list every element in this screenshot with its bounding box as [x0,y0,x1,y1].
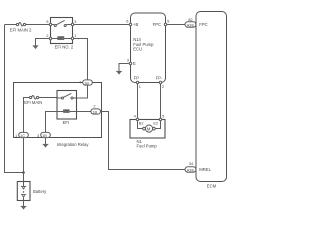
svg-text:1B: 1B [42,133,47,138]
battery [17,182,47,201]
wire connector 1B pin4 to relay EFI switch [73,85,87,98]
fuel pump ECU N14 [126,13,170,89]
integration relay box [14,83,102,147]
ground at ECU pin E [116,71,122,73]
connector 1B pin 2 [91,104,101,115]
wire connector 1B pin 3 to ground [45,138,47,145]
wire ECU FP to fuel pump pin 4 [137,84,139,119]
connector A38 pin 34 (MREL) [185,161,196,172]
svg-text:+B: +B [133,22,138,27]
svg-text:Fuel Pump: Fuel Pump [137,143,158,148]
wire connector 1C up to fuse EFI MAIN [24,98,30,133]
wire top rail to fuse [5,24,17,26]
svg-text:M: M [147,126,151,131]
svg-text:ECM: ECM [207,183,217,188]
wire relay pin 2 to ground [36,39,50,46]
svg-text:Battery: Battery [33,189,47,194]
svg-text:1C: 1C [20,133,25,138]
svg-text:EFI: EFI [63,120,70,125]
svg-text:EFI MAIN 2: EFI MAIN 2 [10,27,32,32]
svg-text:MREL: MREL [199,167,211,172]
wire ECU pin E to ground [119,64,129,72]
connector A38 pin 82 (FPC) [185,17,196,28]
wire fuse EFI MAIN to relay EFI [39,97,57,99]
svg-text:EFI MAIN: EFI MAIN [24,100,42,105]
svg-text:ECU: ECU [133,47,142,52]
wire relay EFI coil to connector 1B pin 2 [70,111,91,113]
ECM box [196,12,227,189]
wire relay pin 3 to ECU +B [74,24,130,26]
wire battery to ground [23,201,25,207]
svg-text:FP-: FP- [156,76,163,81]
ground at relay EFI NO.2 pin 2 [33,46,39,48]
wire ECU FP- to fuel pump pin 5 [160,84,162,119]
fuel pump N1 [130,114,165,149]
connector 1C pin 1 [15,132,28,138]
svg-text:FPC: FPC [153,22,161,27]
svg-text:FPC: FPC [199,22,207,27]
wire pump pin 5 to motor [155,121,160,129]
svg-text:A38: A38 [187,22,194,27]
wire battery positive rail (left) [5,25,24,173]
svg-text:B2: B2 [139,120,144,125]
wire relay pin 1 to connector 1B pin 4 [74,39,88,80]
relay EFI [57,91,77,126]
wire fuse to relay pin 5 [26,24,50,26]
svg-text:Integration Relay: Integration Relay [57,142,90,147]
svg-text:A38: A38 [187,167,194,172]
svg-text:1B: 1B [92,109,97,114]
ground at integration relay pin 3 [43,144,49,146]
svg-text:E: E [133,61,136,66]
fuse EFI MAIN [24,96,42,105]
ground at battery [21,206,27,208]
node battery junction [22,171,25,174]
svg-text:1B: 1B [84,80,89,85]
connector 1B pin 3 [37,132,50,138]
wire relay EFI coil to connector 1B pin 3 [46,112,64,133]
motor M [145,125,152,132]
fuse EFI MAIN 2 [10,23,32,33]
wire MREL to integration relay pin 2 [101,112,186,170]
relay EFI NO. 2 [46,18,77,50]
svg-text:FP: FP [134,76,140,81]
wire ECU FPC to ECM connector [167,24,185,26]
svg-text:EFI NO. 2: EFI NO. 2 [55,44,74,49]
wire pump pin 4 to motor [138,121,143,129]
wire connector 1C to battery [23,138,25,182]
svg-text:34: 34 [189,161,194,166]
svg-text:E2: E2 [153,120,158,125]
connector 1B pin 4 [79,80,92,86]
svg-text:82: 82 [188,17,193,22]
